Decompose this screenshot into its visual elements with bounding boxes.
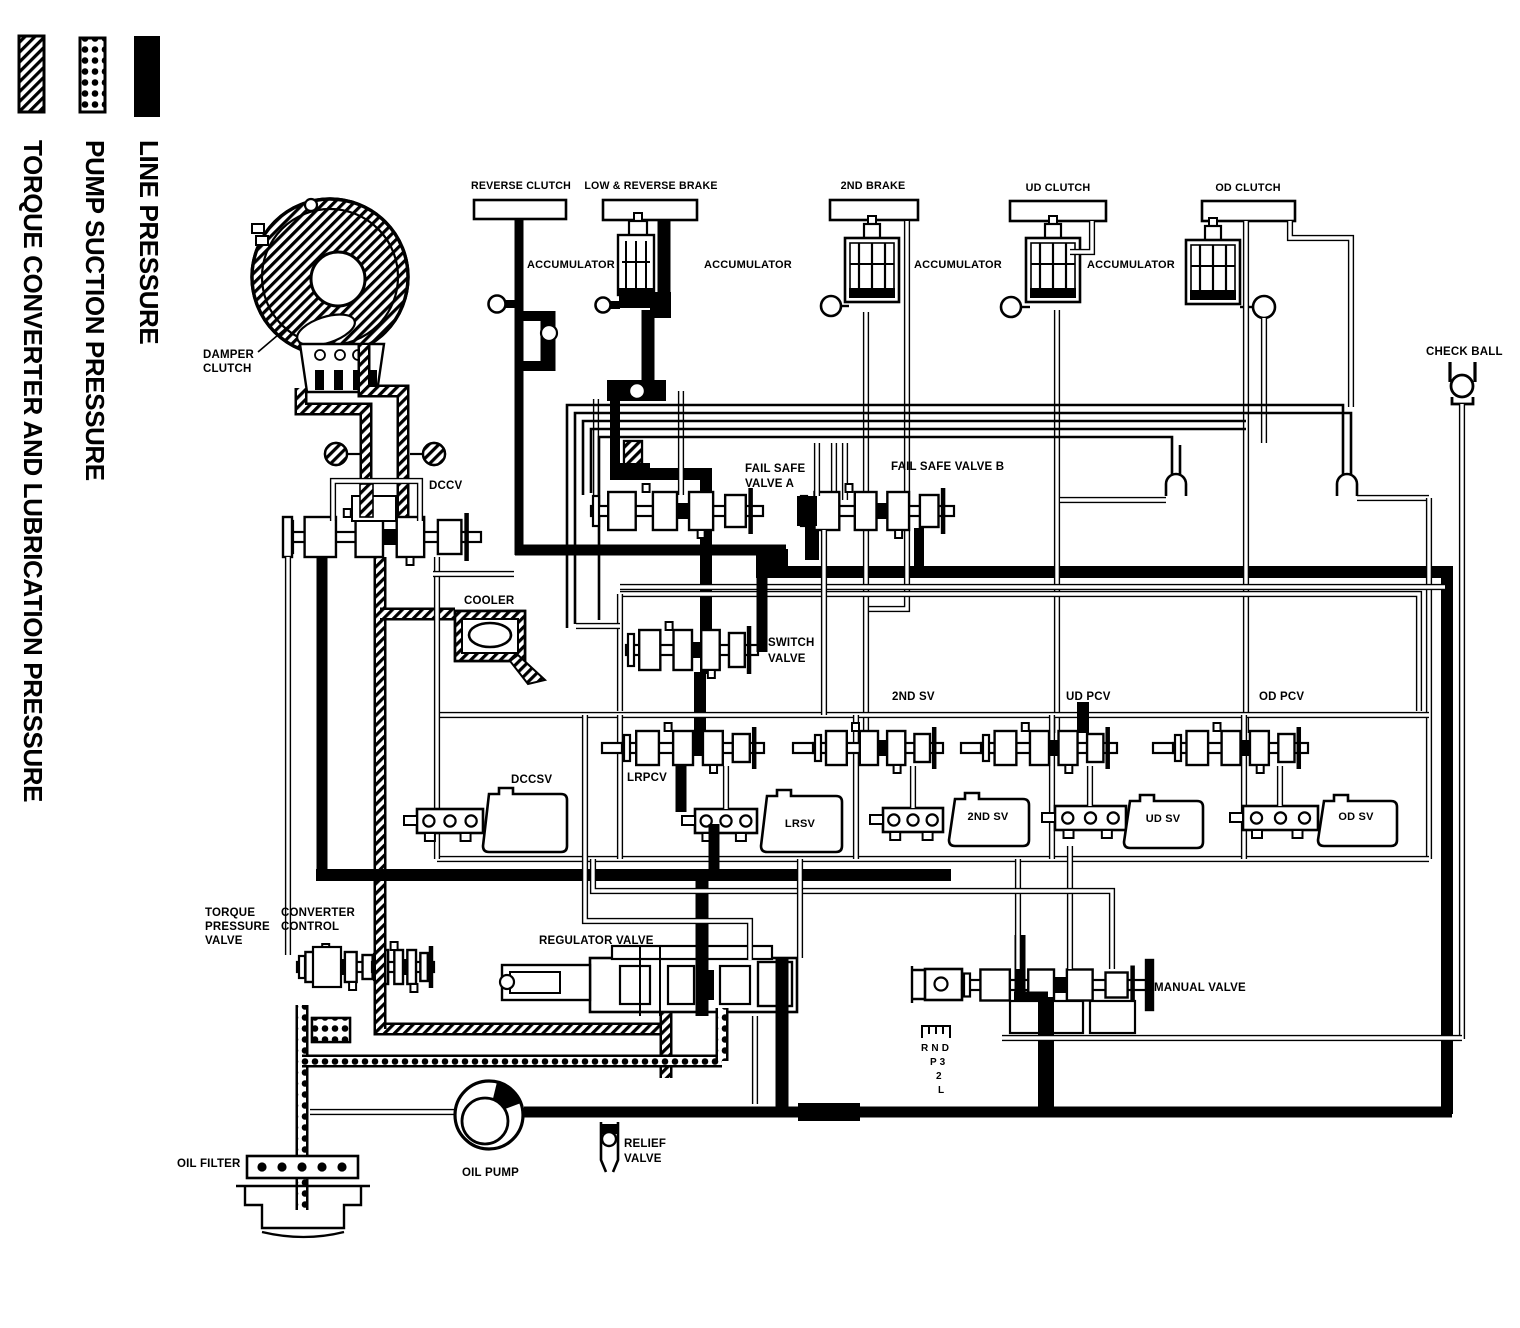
hatched pipe DCCV to cooler and bottom: [380, 557, 663, 1029]
dotted pipe regulator stub: [716, 1008, 729, 1061]
svg-text:ACCUMULATOR: ACCUMULATOR: [527, 259, 615, 271]
label DCCSV: [511, 774, 552, 786]
dotted pipe suction vertical: [296, 1005, 309, 1210]
label FAIL SAFE VALVE A: [745, 463, 806, 490]
check ball: [1450, 362, 1475, 404]
svg-text:MANUAL VALVE: MANUAL VALVE: [1154, 982, 1246, 994]
label REVERSE CLUTCH: [471, 180, 571, 192]
label REGULATOR VALVE: [539, 935, 654, 947]
wire 2nd brake bar drop: [866, 221, 907, 733]
label CONVERTER CONTROL: [281, 907, 355, 933]
label OIL FILTER: [177, 1158, 241, 1170]
svg-text:ACCUMULATOR: ACCUMULATOR: [704, 259, 792, 271]
cooler: [455, 611, 545, 684]
wire DCCV box left pair: [434, 557, 440, 715]
2nd brake stub ball: [821, 296, 849, 316]
label UD PCV: [1066, 691, 1111, 703]
wire OD spool to solenoid: [1277, 766, 1283, 806]
svg-text:DAMPER: DAMPER: [203, 349, 255, 361]
reverse clutch bypass block: [523, 311, 557, 371]
op switch valve: [626, 622, 758, 678]
wire band line 3: [583, 421, 1246, 495]
label SWITCH VALVE: [768, 637, 815, 665]
op OD PCV: [1153, 723, 1308, 773]
label UD CLUTCH: [1026, 182, 1091, 194]
op torque pressure valve: [297, 944, 381, 990]
svg-text:UD CLUTCH: UD CLUTCH: [1026, 182, 1091, 194]
label LRSV: [785, 818, 816, 830]
op regulator valve: [500, 946, 797, 1016]
svg-text:DCCSV: DCCSV: [511, 774, 552, 786]
wire fail safe B entry pairs: [834, 443, 845, 500]
wire bus underlines: [620, 584, 1445, 590]
svg-text:VALVE: VALVE: [205, 935, 243, 947]
wire pump inlet pair: [310, 1109, 458, 1115]
svg-text:R N D: R N D: [921, 1043, 949, 1054]
wire junction to fail safe A (thick): [610, 399, 712, 674]
svg-text:SWITCH: SWITCH: [768, 637, 815, 649]
svg-text:LOW & REVERSE BRAKE: LOW & REVERSE BRAKE: [584, 180, 717, 192]
wire low-reverse accumulator drop (thick): [648, 220, 671, 386]
solenoid UD SV: [1042, 795, 1203, 848]
wire bottom frame: [1002, 1035, 1462, 1041]
junction ball low-reverse: [607, 380, 666, 401]
label MANUAL VALVE: [1154, 982, 1246, 994]
label TORQUE PRESSURE VALVE: [205, 907, 270, 947]
wire LRSV riser (thick): [681, 766, 714, 876]
label OD CLUTCH: [1215, 182, 1280, 194]
wire dome D1 to box edge: [1357, 498, 1429, 859]
svg-text:ACCUMULATOR: ACCUMULATOR: [1087, 259, 1175, 271]
label FAIL SAFE VALVE B: [891, 461, 1004, 473]
svg-text:OD SV: OD SV: [1338, 811, 1374, 823]
legend swatch: pump suction pressure (dotted): [80, 38, 105, 112]
svg-text:ACCUMULATOR: ACCUMULATOR: [914, 259, 1002, 271]
label 2ND SV (pcv row): [892, 691, 935, 703]
wire fail safe B stub (thick): [812, 500, 919, 570]
svg-text:CHECK BALL: CHECK BALL: [1426, 346, 1503, 358]
low-reverse brake bar: [603, 200, 697, 220]
svg-text:OD CLUTCH: OD CLUTCH: [1215, 182, 1280, 194]
wire low bus (thick): [316, 869, 951, 881]
UD clutch bar: [1010, 201, 1106, 221]
svg-text:OD PCV: OD PCV: [1259, 691, 1304, 703]
op 2nd sv spool: [793, 723, 943, 773]
label LRPCV: [627, 772, 667, 784]
label 2ND SV (solenoid): [968, 811, 1009, 823]
wire box to manual valve pair: [593, 859, 1112, 969]
op manual valve: [912, 960, 1153, 1033]
accumulator OD clutch: [1186, 218, 1240, 304]
UD stub ball: [1001, 297, 1030, 317]
label shift positions: [921, 1043, 949, 1096]
dome D1: [1337, 474, 1357, 496]
svg-text:FAIL SAFE VALVE B: FAIL SAFE VALVE B: [891, 461, 1004, 473]
solenoid 2ND SV: [870, 793, 1029, 846]
wire bottom bus (thick): [524, 1103, 1452, 1121]
wire UD sol to manual valve: [1067, 846, 1073, 969]
wire band line 5b: [1179, 445, 1182, 474]
accumulator 2nd brake: [845, 216, 899, 302]
wire band left corner feet: [576, 623, 620, 629]
wire main pressure bus (thick): [756, 549, 1447, 577]
svg-text:2ND SV: 2ND SV: [892, 691, 935, 703]
svg-text:2ND SV: 2ND SV: [968, 811, 1009, 823]
solenoid OD SV: [1230, 795, 1397, 846]
solenoid LRSV: [682, 790, 842, 852]
label DCCV: [429, 480, 463, 492]
wire UD bar stub: [1070, 221, 1092, 252]
wire OD circle drop: [1261, 318, 1267, 443]
label COOLER: [464, 595, 515, 607]
svg-text:P 3: P 3: [930, 1057, 946, 1068]
torque converter top nub: [305, 199, 317, 211]
wire box to regulator right pair: [797, 859, 803, 958]
wire OD feed drop: [1243, 221, 1249, 733]
wire DCCV to bus pair: [433, 571, 514, 577]
wire check ball drop: [1459, 404, 1465, 1039]
op DCCV: [283, 481, 481, 565]
torque converter outer disc: [252, 199, 408, 355]
svg-text:LRSV: LRSV: [785, 818, 816, 830]
label 2ND BRAKE: [841, 180, 906, 192]
op UD PCV: [961, 723, 1117, 773]
small solenoid above fail safe A: [614, 441, 650, 473]
svg-text:VALVE: VALVE: [768, 653, 806, 665]
hatched pipe regulator drain: [660, 1012, 673, 1078]
wire reverse clutch line (thick): [515, 219, 786, 555]
svg-text:FAIL SAFE: FAIL SAFE: [745, 463, 806, 475]
dotted pipe suction horizontal: [302, 1055, 722, 1068]
wire 2nd sol to manual valve: [1015, 859, 1021, 969]
wire acc2 left drop: [593, 399, 599, 495]
svg-text:LINE PRESSURE: LINE PRESSURE: [134, 140, 164, 344]
box solenoid row: [437, 715, 1429, 859]
svg-text:LRPCV: LRPCV: [627, 772, 667, 784]
hatched pipe converter right drop: [364, 345, 403, 518]
wire OD bar right drop: [1290, 221, 1351, 407]
legend label TORQUE CONVERTER AND LUBRICATION PRESSURE: [18, 140, 48, 802]
wire box to regulator pair: [585, 859, 750, 960]
label RELIEF VALVE: [624, 1138, 666, 1165]
oil filter: [236, 1156, 370, 1237]
wire low-reverse thin pair: [678, 391, 684, 495]
torque converter inner hub (white): [311, 252, 365, 306]
wire 2nd spool to solenoid: [910, 766, 916, 808]
wire manual valve feed (thick): [1014, 935, 1048, 1112]
DCCV knob left: [325, 443, 360, 465]
wire fail safe B drop pair: [821, 530, 827, 715]
wire DCCV left pair: [285, 557, 291, 955]
torque converter bottom lens: [293, 308, 358, 351]
svg-text:OIL FILTER: OIL FILTER: [177, 1158, 241, 1170]
wire fail safe A to LRPCV (thick): [694, 672, 706, 752]
wire band line 1: [567, 405, 1343, 628]
label DAMPER CLUTCH: [203, 318, 298, 375]
svg-text:2: 2: [936, 1071, 942, 1082]
svg-text:PUMP SUCTION PRESSURE: PUMP SUCTION PRESSURE: [80, 140, 110, 481]
svg-text:PRESSURE: PRESSURE: [205, 921, 270, 933]
wire band line 2: [575, 413, 1351, 624]
OD stub ball: [1240, 296, 1275, 318]
solenoid DCCSV: [404, 788, 567, 852]
wire dome D2 left: [1060, 497, 1166, 503]
svg-text:TORQUE: TORQUE: [205, 907, 255, 919]
wire DCCV drop (thick): [317, 557, 328, 876]
label CHECK BALL: [1426, 346, 1503, 358]
legend label LINE PRESSURE: [134, 140, 164, 344]
wire UD spool to solenoid: [1087, 766, 1093, 806]
op fail safe valve A: [591, 484, 763, 538]
op fail safe valve B: [797, 484, 954, 538]
wire switch valve right feed (thick): [757, 576, 768, 652]
legend label PUMP SUCTION PRESSURE: [80, 140, 110, 481]
svg-text:UD SV: UD SV: [1146, 813, 1181, 825]
svg-text:UD PCV: UD PCV: [1066, 691, 1111, 703]
svg-text:CONVERTER: CONVERTER: [281, 907, 355, 919]
low-reverse stub ball: [596, 298, 621, 313]
svg-text:COOLER: COOLER: [464, 595, 515, 607]
svg-text:L: L: [938, 1085, 944, 1096]
relief valve: [601, 1122, 618, 1172]
svg-text:OIL PUMP: OIL PUMP: [462, 1167, 519, 1179]
svg-text:CONTROL: CONTROL: [281, 921, 339, 933]
dome D2: [1166, 474, 1186, 496]
hatched pipe converter control riser: [374, 920, 387, 1029]
hatched pipe converter left drop: [301, 388, 366, 518]
label ACCUMULATOR (2nd): [914, 259, 1002, 271]
svg-text:REVERSE CLUTCH: REVERSE CLUTCH: [471, 180, 571, 192]
svg-text:TORQUE CONVERTER AND LUBRICATI: TORQUE CONVERTER AND LUBRICATION PRESSUR…: [18, 140, 48, 802]
wire regulator drop pair: [752, 1016, 758, 1104]
wire right riser (thick): [1441, 566, 1453, 1114]
wire LRPCV to LRSV: [723, 766, 729, 809]
legend swatch: line pressure (solid): [134, 36, 160, 117]
wire regulator risers (thick): [702, 876, 782, 1108]
wire band line 5: [599, 437, 1172, 620]
accumulator UD clutch: [1026, 216, 1080, 302]
accumulator low-reverse: [618, 213, 654, 308]
wire UD accumulator drop: [1054, 310, 1060, 733]
oil pump: [455, 1081, 523, 1149]
box switch valve: [620, 594, 1419, 711]
label ACCUMULATOR (UD): [1087, 259, 1175, 271]
reverse clutch stub ball: [489, 296, 518, 313]
legend swatch: torque converter & lubrication pressure (hatched): [19, 36, 44, 112]
OD clutch bar: [1202, 201, 1295, 221]
svg-text:2ND BRAKE: 2ND BRAKE: [841, 180, 906, 192]
svg-text:CLUTCH: CLUTCH: [203, 363, 251, 375]
label ACCUMULATOR (low-reverse): [704, 259, 792, 271]
reverse clutch bar: [474, 200, 566, 219]
wire band to fail safe B: [814, 443, 820, 496]
label ACCUMULATOR (reverse): [527, 259, 615, 271]
op LRPCV: [602, 723, 764, 773]
shift gate glyph: [922, 1026, 950, 1038]
label OD PCV: [1259, 691, 1304, 703]
torque converter left nubs: [252, 224, 268, 245]
wire UD PCV feeder (thick): [1077, 702, 1089, 733]
label UD SV: [1146, 813, 1181, 825]
DCCV knob right: [410, 443, 445, 465]
op converter control valve: [313, 942, 434, 992]
wire band line 4: [591, 429, 1246, 493]
label OD SV: [1338, 811, 1374, 823]
svg-text:VALVE: VALVE: [624, 1153, 662, 1165]
label LOW &amp; REVERSE BRAKE: [584, 180, 717, 192]
2nd brake bar: [830, 200, 918, 220]
svg-text:DCCV: DCCV: [429, 480, 463, 492]
label OIL PUMP: [462, 1167, 519, 1179]
suction elbow block: [312, 1018, 350, 1042]
svg-text:RELIEF: RELIEF: [624, 1138, 666, 1150]
torque converter bottom hub: [300, 344, 384, 392]
